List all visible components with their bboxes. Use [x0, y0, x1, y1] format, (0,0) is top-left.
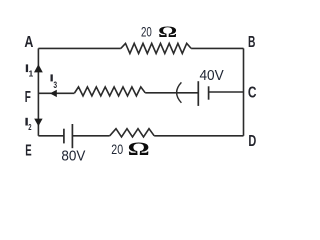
- resistor R3 20 ohm (bottom): [110, 129, 155, 137]
- svg-text:F: F: [25, 89, 31, 106]
- wire A to E (left vertical through node F): [37, 48, 39, 135]
- svg-text:Ω: Ω: [158, 24, 177, 41]
- wire F to resistor R2 (middle left segment): [38, 92, 74, 94]
- current arrow I2 (downward on left wire): [34, 119, 42, 127]
- wire E to battery B2 (bottom left segment): [38, 135, 64, 137]
- wire resistor R3 to node D (bottom right segment): [154, 135, 243, 137]
- battery B1 40V long plate: [197, 81, 199, 106]
- svg-text:40V: 40V: [200, 67, 225, 84]
- svg-text:B: B: [248, 34, 255, 51]
- battery B2 80V short plate: [63, 129, 65, 144]
- wire battery B2 to resistor R3 (bottom segment): [72, 135, 109, 137]
- wire B to D (right vertical through node C): [243, 48, 245, 135]
- current label I2: [25, 118, 27, 126]
- svg-text:3: 3: [53, 80, 57, 91]
- svg-text:20: 20: [111, 141, 123, 157]
- wire battery B1 to node C (middle right segment): [209, 91, 244, 93]
- svg-text:1: 1: [29, 69, 34, 79]
- svg-text:C: C: [248, 84, 257, 101]
- resistor R2 (middle branch): [75, 87, 146, 96]
- svg-text:20: 20: [141, 24, 152, 40]
- svg-text:A: A: [24, 34, 33, 51]
- current label I1: [26, 64, 28, 72]
- battery B2 80V long plate: [71, 124, 73, 148]
- svg-text:E: E: [25, 143, 31, 160]
- svg-text:80V: 80V: [61, 147, 85, 164]
- resistor R1 20 ohm (top): [121, 43, 191, 53]
- current label I3: [51, 74, 53, 81]
- battery B1 40V curved bracket: [177, 82, 182, 102]
- wire resistor R1 to node B (top right segment): [191, 47, 243, 49]
- wire A to resistor R1 (top left segment): [38, 47, 120, 49]
- battery B1 40V short plate: [208, 86, 210, 99]
- current arrow I1 (upward on left wire): [34, 64, 43, 72]
- wire resistor R2 to battery B1 (middle segment): [145, 92, 198, 94]
- svg-text:Ω: Ω: [128, 139, 150, 160]
- svg-text:2: 2: [28, 123, 32, 132]
- current arrow I3 (leftward on middle wire): [50, 90, 57, 97]
- svg-text:D: D: [248, 133, 256, 150]
